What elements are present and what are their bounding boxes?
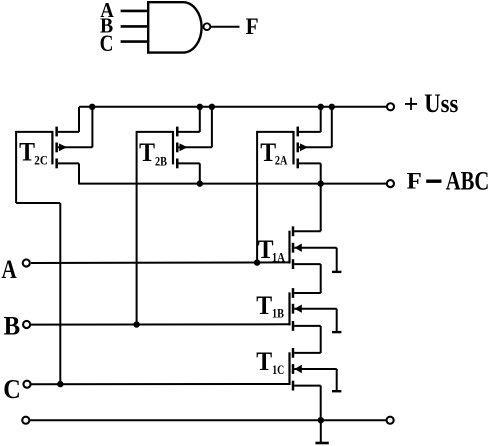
svg-text:F: F <box>246 14 259 40</box>
svg-text:1A: 1A <box>272 250 285 265</box>
svg-text:T: T <box>139 138 155 167</box>
svg-text:ABC: ABC <box>446 166 488 195</box>
svg-text:Uss: Uss <box>424 89 458 118</box>
svg-text:T: T <box>256 291 272 320</box>
svg-text:A: A <box>2 255 17 284</box>
svg-text:B: B <box>4 312 21 341</box>
svg-text:C: C <box>3 374 21 404</box>
svg-text:C: C <box>100 31 114 56</box>
svg-text:1C: 1C <box>272 362 284 377</box>
svg-text:2B: 2B <box>155 154 167 169</box>
svg-text:1B: 1B <box>272 306 284 321</box>
svg-text:F: F <box>407 168 422 194</box>
svg-text:+: + <box>404 90 419 119</box>
svg-text:2A: 2A <box>275 153 288 168</box>
svg-text:T: T <box>19 138 35 167</box>
svg-text:T: T <box>256 347 272 376</box>
svg-text:T: T <box>260 138 276 167</box>
svg-text:2C: 2C <box>34 153 48 168</box>
